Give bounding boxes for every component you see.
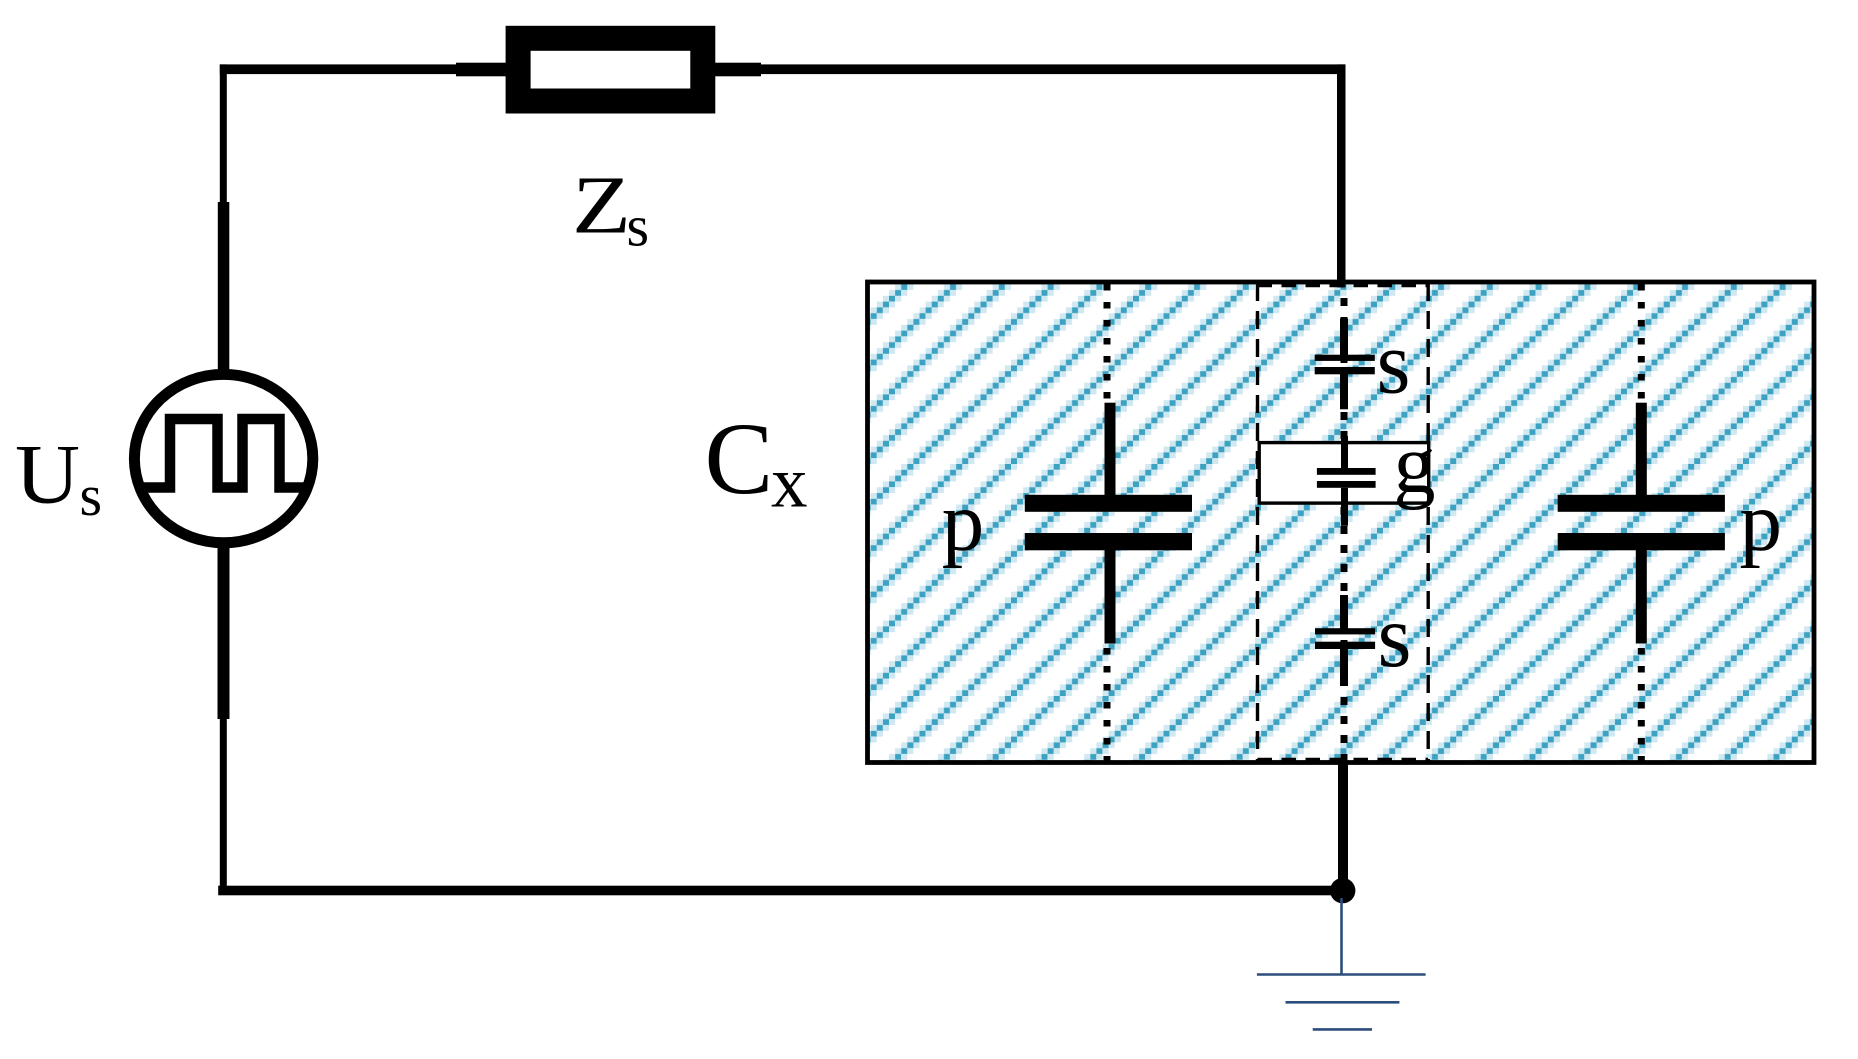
capacitor p (right) top lead bbox=[1636, 403, 1647, 496]
svg-text:s: s bbox=[627, 194, 650, 259]
wire: sensor box to ground node bbox=[1338, 762, 1348, 891]
svg-text:p: p bbox=[1740, 475, 1783, 569]
dashed separator line left of series section bbox=[1256, 283, 1259, 762]
white box around gap capacitor g bbox=[1259, 443, 1429, 504]
svg-text:s: s bbox=[1377, 315, 1411, 413]
capacitor p (left) bottom plate bbox=[1025, 533, 1192, 550]
capacitor p (left) top plate bbox=[1025, 495, 1192, 512]
svg-text:g: g bbox=[1394, 418, 1436, 511]
wire: vertical from source up to top rail bbox=[220, 64, 227, 206]
junction node dot bbox=[1330, 878, 1355, 903]
svg-text:x: x bbox=[771, 441, 808, 522]
svg-text:s: s bbox=[80, 463, 103, 528]
ground stem bbox=[1340, 898, 1343, 975]
dashed bottom edge of middle section bbox=[1258, 758, 1429, 761]
capacitor g bottom lead bbox=[1341, 488, 1348, 526]
ground bar 1 bbox=[1257, 973, 1426, 976]
dotted axis of right capacitor p bbox=[1638, 284, 1645, 762]
wire: top rail left segment bbox=[220, 64, 457, 74]
capacitor s (top) top lead bbox=[1340, 319, 1348, 356]
dashed top edge of middle section bbox=[1258, 284, 1429, 287]
svg-text:p: p bbox=[942, 475, 985, 569]
label p left bbox=[942, 475, 985, 569]
capacitor p (right) top plate bbox=[1558, 495, 1725, 512]
ground bar 3 bbox=[1313, 1028, 1372, 1031]
voltage source Us circle bbox=[134, 374, 312, 542]
label s top bbox=[1377, 315, 1411, 413]
label p right bbox=[1740, 475, 1783, 569]
wire: bottom rail bbox=[218, 886, 1343, 896]
wire: source bottom lead (thick) bbox=[218, 544, 230, 719]
capacitor s (bottom) bottom plate bbox=[1315, 642, 1375, 649]
impedance Zs left stub bbox=[456, 63, 508, 77]
capacitor s (top) top plate bbox=[1315, 355, 1375, 361]
wire: source top lead (thick) bbox=[218, 202, 230, 374]
dotted axis of left capacitor p bbox=[1104, 284, 1111, 762]
svg-text:U: U bbox=[15, 428, 80, 522]
capacitor s (top) bottom plate bbox=[1315, 367, 1375, 374]
label Zs bbox=[572, 158, 649, 258]
capacitor s (bottom) top lead bbox=[1340, 595, 1348, 629]
capacitor g top lead bbox=[1341, 436, 1348, 468]
label s bottom bbox=[1378, 588, 1412, 686]
svg-text:s: s bbox=[1378, 588, 1412, 686]
svg-text:C: C bbox=[705, 402, 774, 516]
ground bar 2 bbox=[1286, 1001, 1400, 1004]
capacitor p (left) bottom lead bbox=[1105, 550, 1116, 644]
capacitor p (left) top lead bbox=[1105, 403, 1116, 496]
svg-text:Z: Z bbox=[572, 158, 631, 250]
capacitor p (right) bottom plate bbox=[1558, 533, 1725, 550]
impedance Zs body bbox=[518, 38, 703, 101]
label Us bbox=[15, 428, 102, 529]
capacitor s (top) bottom lead bbox=[1340, 374, 1348, 409]
dash-dot centre axis of series section bbox=[1341, 298, 1348, 762]
capacitor s (bottom) top plate bbox=[1315, 628, 1375, 634]
capacitor g bottom plate bbox=[1317, 481, 1376, 488]
impedance Zs right stub bbox=[713, 63, 761, 77]
label Cx bbox=[705, 402, 808, 522]
label g bbox=[1394, 418, 1436, 511]
square-wave symbol inside source bbox=[144, 419, 305, 488]
wire: top rail right segment bbox=[761, 64, 1345, 74]
capacitor s (bottom) bottom lead bbox=[1340, 649, 1348, 686]
wire: vertical from source down to bottom rail bbox=[220, 719, 227, 891]
capacitor g top plate bbox=[1317, 468, 1376, 475]
dashed separator line right of series section bbox=[1426, 283, 1429, 762]
wire: down into sensor box bbox=[1337, 64, 1346, 287]
capacitor p (right) bottom lead bbox=[1636, 550, 1647, 644]
sensor body box Cx (hatched) bbox=[868, 282, 1815, 763]
